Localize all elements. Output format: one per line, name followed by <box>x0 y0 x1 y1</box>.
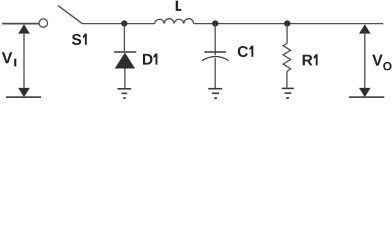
ground under D1 <box>118 89 132 98</box>
switch S1 blade <box>58 5 82 23</box>
diode D1 triangle <box>115 53 135 69</box>
wire bottom-left ground rail <box>6 96 41 98</box>
wire D1 anode drop <box>123 24 125 52</box>
wire R1 to ground <box>286 72 288 88</box>
wire top rail left segment <box>82 23 155 25</box>
label D1 <box>143 54 153 65</box>
wire top rail right segment <box>194 23 384 25</box>
ground under R1 <box>282 88 294 98</box>
node VO bottom arrow <box>359 88 371 97</box>
resistor R1 zigzag <box>283 43 291 71</box>
wire bottom-right ground rail <box>349 96 384 98</box>
label VI subscript I <box>14 59 16 67</box>
wire D1 to ground <box>124 69 126 89</box>
capacitor C1 curved plate <box>202 56 229 60</box>
label VI <box>2 52 12 63</box>
junction node at R1 <box>284 20 290 26</box>
node VO top arrow <box>359 24 371 33</box>
inductor L coil <box>155 19 194 24</box>
wire VI measurement line <box>23 33 25 89</box>
switch S1 terminal circle <box>39 19 47 27</box>
ground under C1 <box>208 89 222 99</box>
diode D1 cathode bar <box>114 51 136 53</box>
wire C1 top drop <box>214 24 216 56</box>
label L <box>176 1 182 11</box>
label S1 digit 1 <box>83 34 87 45</box>
label D1 digit 1 <box>154 53 158 64</box>
junction node at D1 <box>121 20 127 26</box>
node VI bottom arrow <box>18 88 30 97</box>
wire R1 top drop <box>286 24 288 44</box>
label C1 <box>238 46 248 57</box>
label VO subscript O <box>383 62 391 70</box>
label R1 <box>303 55 313 66</box>
wire C1 to ground <box>214 58 216 88</box>
junction node at C1 <box>212 20 218 26</box>
label S1 <box>72 34 81 45</box>
label VO <box>372 55 382 66</box>
wire top-left input stub <box>2 23 39 25</box>
label R1 digit 1 <box>314 54 318 65</box>
label C1 digit 1 <box>249 46 253 57</box>
wire VO measurement line <box>364 33 366 89</box>
capacitor C1 flat plate <box>204 51 226 53</box>
node VI top arrow <box>18 24 30 33</box>
